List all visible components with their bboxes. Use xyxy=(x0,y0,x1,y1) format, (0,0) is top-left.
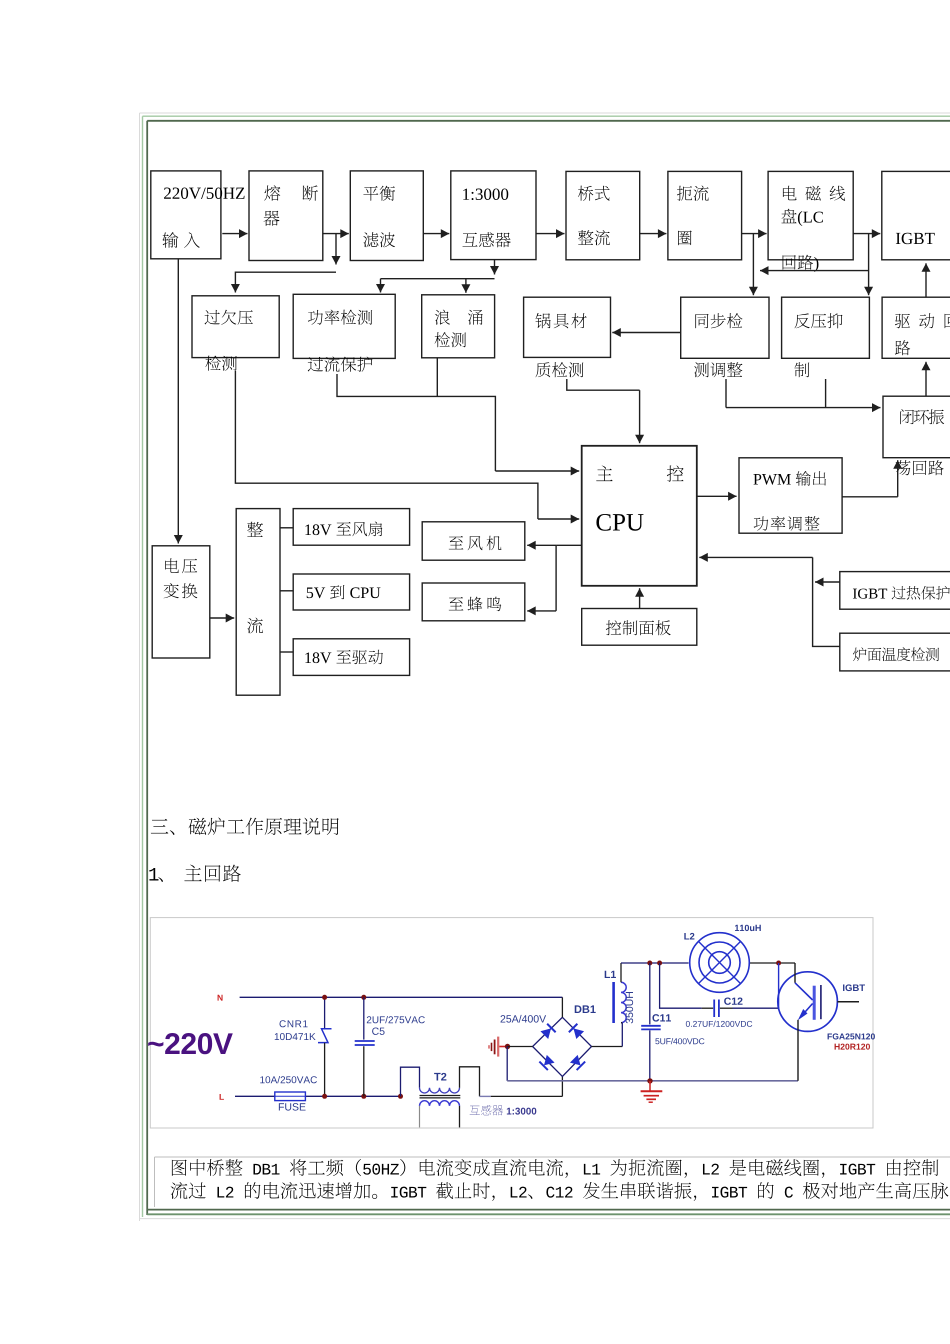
node 5V CPU box xyxy=(293,574,409,610)
node IGBT overheat box xyxy=(840,572,950,610)
paragraph line 2 xyxy=(171,1182,949,1201)
junction dots on N/L lines xyxy=(322,995,327,1000)
wire detect row to CPU xyxy=(235,371,538,519)
ground earth (red) on bus xyxy=(649,1081,651,1091)
capacitor C12 0.27UF/1200VDC resonant branch xyxy=(660,963,702,1008)
wire driver to IGBT arrow xyxy=(925,263,927,297)
wire bridge minus to diamond xyxy=(508,1046,533,1048)
node stove temperature box xyxy=(840,633,950,671)
node surge detect box xyxy=(422,295,495,358)
node L (AC live) xyxy=(220,1094,224,1100)
node 18V drive box xyxy=(293,639,409,676)
node 18V fan box xyxy=(293,509,409,546)
schematic frame xyxy=(150,918,873,1128)
wire drop to detect row xyxy=(335,234,337,265)
node bus-ground junction xyxy=(647,1078,652,1083)
green double page border xyxy=(143,115,950,117)
wire sync/suppress to closed loop xyxy=(725,379,727,408)
wire L line xyxy=(235,1095,276,1097)
paragraph line 1 xyxy=(172,1159,938,1178)
wire rectifier taps xyxy=(280,527,293,529)
node choke box xyxy=(668,171,742,259)
heading section 3 xyxy=(151,818,339,835)
node sync detect box xyxy=(681,297,769,358)
wire row1 arrows xyxy=(222,233,247,235)
capacitor C5 2UF/275VAC xyxy=(363,997,365,1039)
wire control panel to CPU arrow xyxy=(639,588,641,608)
node to fan box xyxy=(422,522,525,560)
node control panel box xyxy=(582,609,697,646)
node over/under-voltage detect box xyxy=(192,296,279,358)
node pot material detect box xyxy=(524,297,611,357)
wire IGBT gate lead xyxy=(837,1001,859,1003)
wire DC top node xyxy=(621,962,689,964)
wire N line xyxy=(240,996,563,998)
wire N to bridge top xyxy=(561,997,563,1017)
ground chassis (red) at bridge minus xyxy=(497,1037,499,1057)
node reverse voltage suppress box xyxy=(782,297,870,358)
inductor L1 350UH xyxy=(612,982,615,1023)
node N (AC neutral) xyxy=(218,995,223,1001)
bridge rectifier DB1 25A/400V xyxy=(533,1017,592,1076)
node fuse box xyxy=(249,171,323,261)
wire sync to pot-material arrow xyxy=(612,332,680,334)
wire CPU to PWM arrow xyxy=(697,495,737,497)
faint page edge lines xyxy=(140,113,950,1221)
node driver circuit box xyxy=(882,297,950,358)
varistor CNR1 10D471K xyxy=(324,997,326,1028)
wire bridge plus to L1 xyxy=(592,1046,623,1048)
label ~220V source xyxy=(148,1033,233,1054)
node 1:3000 transformer box xyxy=(451,171,536,260)
wire voltage convert to rectifier xyxy=(210,617,234,619)
wire IGBT emitter to bus xyxy=(797,1020,799,1081)
node balance filter box xyxy=(350,171,423,261)
paragraph frame xyxy=(155,1157,950,1207)
wire overheat/temperature bus to CPU xyxy=(815,581,840,583)
node bridge rectifier box xyxy=(566,171,640,259)
inductor L2 110uH pancake coil xyxy=(690,933,750,993)
wire CPU to fan/buzzer xyxy=(556,544,582,546)
wire input to voltage convert xyxy=(177,259,179,544)
node voltage convert box xyxy=(152,546,210,658)
fuse FUSE 10A/250VAC xyxy=(275,1092,306,1101)
node LC coil plate box xyxy=(768,171,853,259)
wire T2 output to bridge xyxy=(480,1095,491,1097)
node rectifier box xyxy=(236,509,280,696)
node 220V/50HZ input box xyxy=(151,171,221,259)
transistor IGBT FGA25N120 xyxy=(778,972,838,1032)
node top bus junctions xyxy=(647,961,652,966)
node power detect box xyxy=(293,294,395,358)
wire bridge minus down to bus xyxy=(506,1047,508,1081)
node to buzzer box xyxy=(422,583,525,621)
heading subsection 1 xyxy=(149,865,241,882)
capacitor C11 5UF/400VDC xyxy=(649,963,651,1024)
node closed loop oscillator box xyxy=(883,396,950,458)
node main CPU box xyxy=(582,446,697,586)
wire PWM to closed loop xyxy=(842,496,898,498)
wire ground bus xyxy=(507,1080,798,1082)
node PWM output box xyxy=(739,458,842,533)
transformer T2 1:3000 xyxy=(401,1067,420,1096)
node IGBT box xyxy=(882,171,950,259)
wire closed-loop to driver arrow xyxy=(925,362,927,396)
node bridge minus junction xyxy=(505,1044,510,1049)
